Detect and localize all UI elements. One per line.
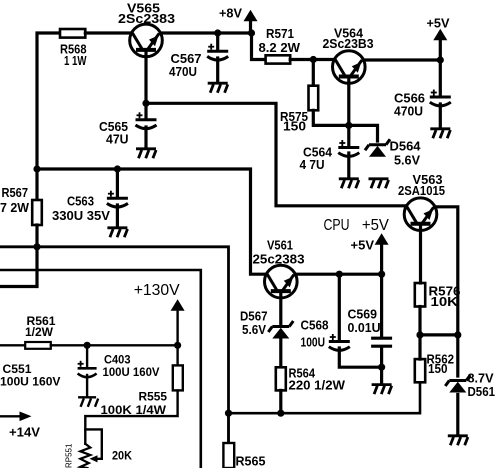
svg-text:+8V: +8V [219, 6, 242, 21]
svg-text:470U: 470U [394, 105, 423, 119]
svg-text:5.6V: 5.6V [394, 154, 421, 168]
svg-text:RP551: RP551 [65, 443, 74, 468]
svg-text:C568: C568 [301, 319, 329, 333]
svg-text:C551: C551 [3, 364, 33, 376]
svg-text:C563: C563 [67, 195, 94, 209]
svg-text:R565: R565 [236, 455, 266, 469]
svg-text:D567: D567 [240, 310, 268, 324]
svg-text:8.2 2W: 8.2 2W [259, 41, 301, 55]
svg-text:V561: V561 [267, 239, 293, 253]
svg-text:C566: C566 [394, 92, 425, 106]
svg-text:+130V: +130V [134, 282, 180, 299]
svg-text:8.7V: 8.7V [468, 372, 495, 386]
svg-text:100U 160V: 100U 160V [103, 367, 160, 379]
svg-text:C567: C567 [171, 52, 202, 66]
svg-text:4 7U: 4 7U [300, 158, 325, 172]
svg-text:5.6V: 5.6V [242, 323, 267, 337]
svg-text:+5V: +5V [362, 217, 389, 234]
svg-text:20K: 20K [112, 451, 133, 463]
svg-text:330U 35V: 330U 35V [52, 209, 111, 223]
svg-text:10K: 10K [431, 295, 459, 309]
svg-text:+5V: +5V [427, 16, 450, 31]
svg-text:R571: R571 [266, 27, 294, 41]
svg-text:+14V: +14V [9, 425, 40, 440]
svg-text:1 1W: 1 1W [64, 54, 87, 68]
svg-text:470U: 470U [169, 65, 197, 79]
svg-text:0.01U: 0.01U [348, 321, 381, 335]
svg-text:CPU: CPU [324, 217, 350, 234]
svg-text:R555: R555 [139, 392, 168, 404]
svg-text:D561: D561 [468, 385, 496, 399]
svg-text:220 1/2W: 220 1/2W [289, 379, 346, 393]
svg-text:47U: 47U [106, 133, 129, 147]
svg-text:2SA1015: 2SA1015 [398, 184, 445, 198]
svg-text:C569: C569 [348, 308, 378, 322]
svg-text:25c2383: 25c2383 [253, 253, 305, 267]
svg-text:150: 150 [283, 120, 306, 134]
svg-text:D564: D564 [390, 140, 421, 154]
svg-text:R567: R567 [2, 186, 29, 200]
svg-text:100U: 100U [301, 336, 326, 350]
svg-text:2Sc23B3: 2Sc23B3 [323, 37, 374, 51]
svg-text:2Sc2383: 2Sc2383 [118, 12, 175, 26]
svg-text:7 2W: 7 2W [0, 201, 29, 215]
svg-text:1/2W: 1/2W [25, 327, 53, 339]
svg-text:C403: C403 [104, 355, 131, 367]
svg-text:100K 1/4W: 100K 1/4W [101, 405, 167, 417]
svg-text:150: 150 [428, 362, 448, 376]
svg-text:100U 160V: 100U 160V [0, 377, 61, 389]
svg-text:+5V: +5V [351, 238, 375, 253]
